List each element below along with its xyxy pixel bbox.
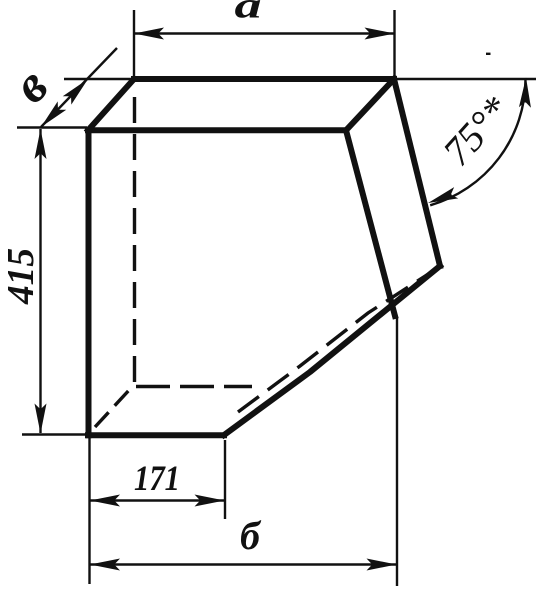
svg-text:а: а [235,0,262,27]
svg-text:171: 171 [134,458,180,498]
svg-text:415: 415 [0,248,42,305]
svg-text:б: б [240,513,262,558]
